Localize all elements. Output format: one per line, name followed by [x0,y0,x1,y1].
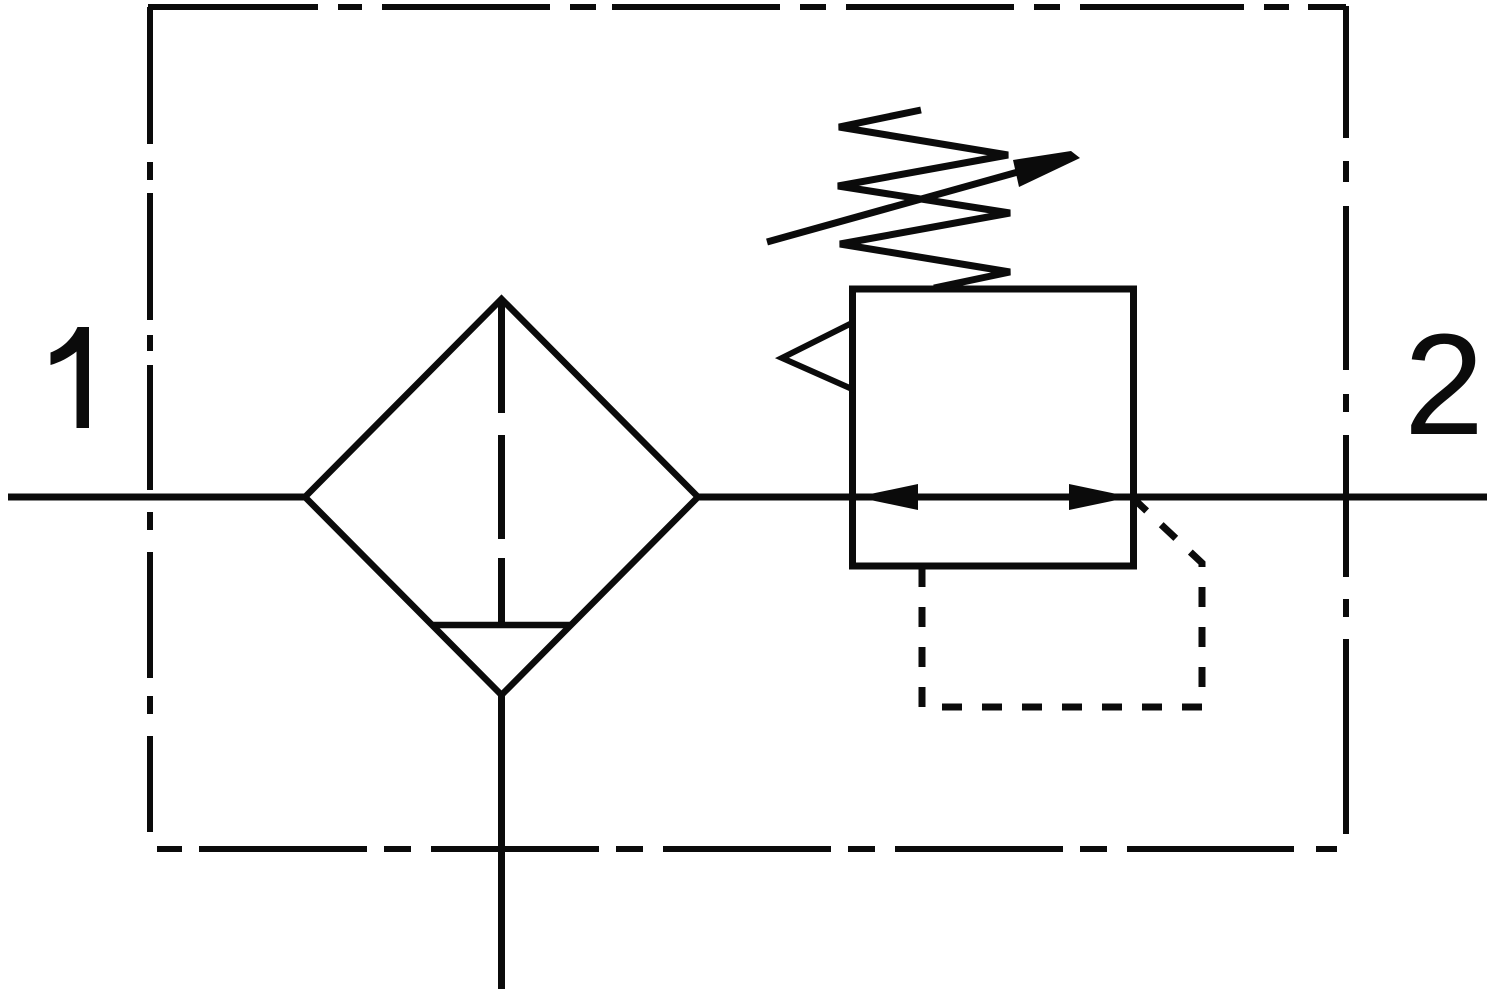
enclosure frame left edge (dash-dot) [147,7,153,832]
adjustment arrow shaft [767,165,1043,242]
adjustment arrowhead [1013,151,1080,187]
filter center dashed line [498,302,505,625]
port label 1 (drawn glyph) [51,327,90,428]
pilot control dashed line loop [922,500,1202,707]
flow arrowhead right (inside regulator) [1069,484,1131,510]
relief vent triangle on regulator left edge [782,323,852,389]
main flow line filter to port 2 [698,494,1487,501]
enclosure frame bottom edge (dash-dot) [157,846,1346,852]
filter F1 diamond body [305,299,698,695]
enclosure frame top edge (dash-dot) [148,4,1346,10]
regulator R1 body box [853,289,1134,566]
drain line [498,693,505,989]
spring (zigzag) above regulator [838,110,1010,288]
water separator line [431,622,572,629]
enclosure frame right edge (dash-dot) [1343,6,1349,834]
main flow line port 1 to filter [8,494,305,501]
flow arrowhead left (inside regulator) [856,484,918,510]
svg-text:2: 2 [1404,304,1484,465]
